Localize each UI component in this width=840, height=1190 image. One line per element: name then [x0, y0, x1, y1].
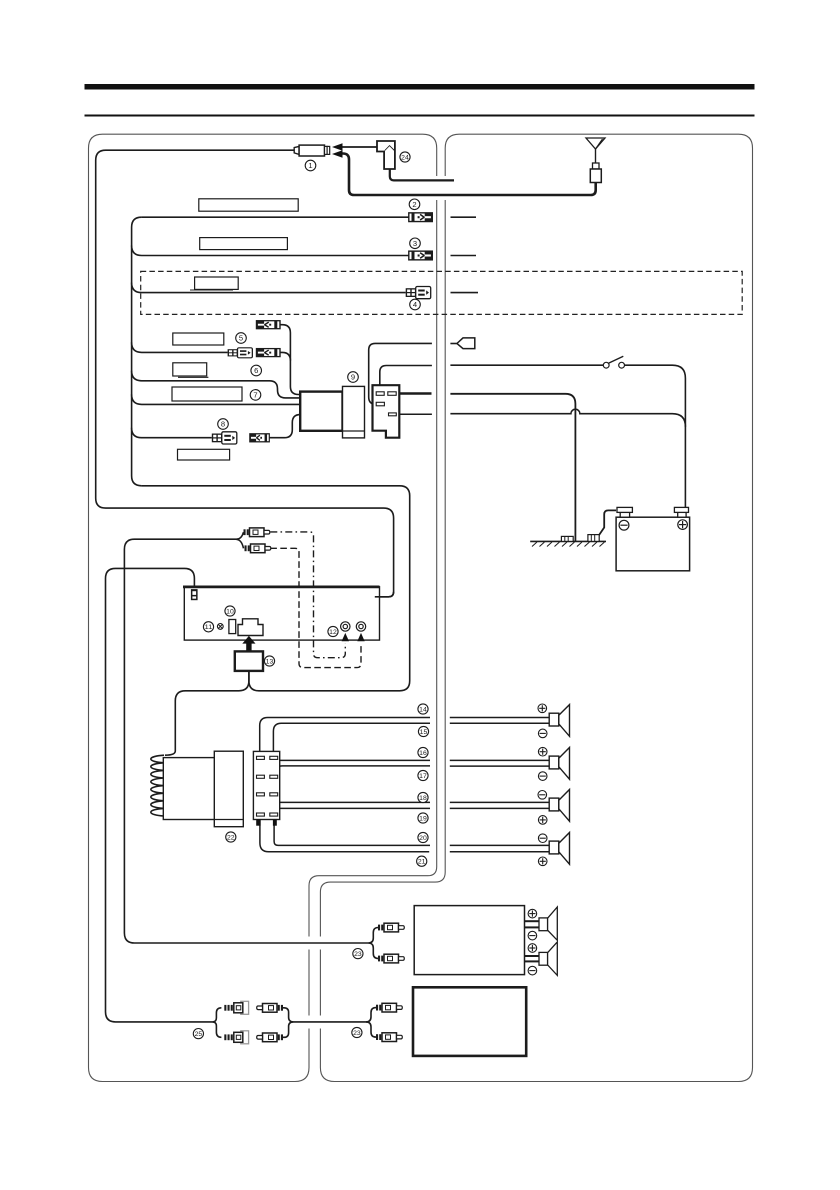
svg-text:16: 16	[419, 750, 427, 757]
svg-text:9: 9	[351, 373, 355, 382]
svg-text:20: 20	[419, 835, 427, 842]
svg-text:17: 17	[419, 773, 427, 780]
svg-text:13: 13	[266, 658, 274, 665]
svg-text:23: 23	[353, 1030, 361, 1037]
svg-text:10: 10	[226, 608, 234, 615]
svg-text:12: 12	[329, 629, 337, 636]
svg-text:2: 2	[412, 200, 416, 209]
svg-text:19: 19	[419, 815, 427, 822]
svg-text:14: 14	[419, 706, 427, 713]
svg-text:21: 21	[418, 859, 426, 866]
svg-text:7: 7	[253, 391, 257, 400]
svg-text:6: 6	[254, 366, 258, 375]
svg-text:15: 15	[420, 729, 428, 736]
svg-text:22: 22	[227, 834, 235, 841]
svg-text:25: 25	[195, 1031, 203, 1038]
svg-text:5: 5	[239, 334, 243, 343]
svg-text:8: 8	[221, 420, 225, 429]
svg-text:11: 11	[205, 624, 213, 631]
svg-text:1: 1	[308, 161, 312, 170]
svg-text:3: 3	[413, 239, 417, 248]
svg-text:4: 4	[413, 300, 417, 309]
svg-text:24: 24	[401, 154, 409, 161]
svg-text:23: 23	[354, 951, 362, 958]
svg-text:18: 18	[419, 795, 427, 802]
